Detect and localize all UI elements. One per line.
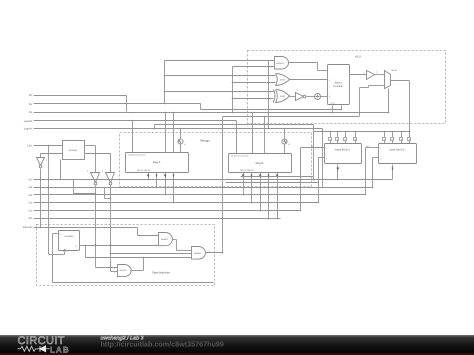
wire RegB Q3 (260, 173, 262, 211)
junction inv1 line1 (73, 179, 75, 181)
wire inv1 tap h (74, 193, 96, 195)
junction x164 or (164, 75, 166, 77)
wire S0 drop (126, 96, 128, 112)
wire FF clock stub (64, 252, 66, 255)
svg-text:1: 1 (363, 72, 364, 75)
wire inv2 tap v (104, 188, 106, 199)
wire FF Q output (80, 245, 159, 247)
svg-text:Counter: Counter (69, 149, 78, 152)
svg-text:Decode: Decode (23, 226, 32, 229)
wire Load A drop right (322, 129, 324, 188)
svg-text:1: 1 (273, 75, 274, 78)
wire S0 (34, 95, 127, 97)
junction bank mux B pin2 (392, 131, 394, 133)
junction x268 b (268, 82, 270, 84)
wire Decode drop (137, 228, 139, 236)
wire SF select stub2 (341, 106, 343, 110)
junction SF stub s0 (332, 112, 334, 114)
bank mux A pin box 2 (336, 138, 339, 142)
arrow RegA Q2 (156, 175, 158, 178)
svg-text:S1: S1 (29, 103, 33, 106)
junction regA d2 (173, 112, 175, 114)
clock source V1 (Reg A) (178, 139, 186, 146)
junction x164 xor (164, 91, 166, 93)
junction regB d2 (264, 116, 266, 118)
wire mux select down (388, 89, 390, 113)
wire bank feed step up (154, 125, 156, 129)
wire RegB top pin d1 (252, 113, 254, 154)
logo wire mid (36, 348, 41, 350)
wire adder to SF pin3 (321, 96, 328, 98)
wire Load B to Reg A pin (132, 121, 134, 153)
bank mux B pin box 2 (391, 138, 394, 142)
wire muxA Id in (301, 147, 325, 149)
svg-text:D0: D0 (29, 217, 33, 220)
wire SF output (350, 74, 367, 76)
wire clockA to RegA (180, 145, 182, 153)
arrow muxB output (392, 168, 394, 171)
svg-text:1: 1 (297, 89, 298, 92)
junction invclk line1 (40, 179, 42, 181)
junction x268 c (268, 98, 270, 100)
arrow muxA output (337, 168, 340, 171)
wire RegB Q5 (277, 173, 279, 219)
mux U11 Bank MUX B (379, 144, 417, 164)
bank mux A pin box 1 (329, 138, 332, 142)
wire rail v x164 (164, 61, 166, 104)
junction S2 at x232 (232, 112, 234, 114)
OR gate U6 (273, 74, 290, 86)
wire feedback step a (360, 87, 369, 89)
wire inverter X2 output down (95, 186, 97, 268)
bank mux B pin box 1 (383, 138, 386, 142)
wire bank mux A pin3 stub (345, 141, 347, 144)
svg-text:S0: S0 (29, 94, 33, 97)
junction regB d1 (252, 112, 254, 114)
counter U2 (63, 141, 85, 160)
wire muxB in2 v (372, 158, 374, 188)
junction decode invclk (40, 227, 42, 229)
svg-text:3: 3 (329, 95, 330, 98)
junction D1 regB3 (260, 210, 262, 212)
junction D5 regA1 (148, 179, 150, 181)
bank mux B pin box 3 (400, 138, 403, 142)
wire inv1 tap v (73, 180, 75, 194)
svg-text:1: 1 (326, 147, 327, 150)
wire bank mux B pin2 stub (392, 141, 394, 144)
wire bank mux A pin1 stub (330, 141, 332, 144)
junction inv2 tap (110, 198, 112, 200)
junction counter bottom (60, 179, 62, 181)
wire XOR in1 rail (165, 91, 274, 93)
svg-text:QD QC QB QA: QD QC QB QA (240, 169, 254, 172)
wire S1 rail (201, 109, 342, 111)
wire bank mux B pin3 feed (401, 132, 403, 138)
wire mux output (391, 80, 410, 82)
wire RegB Q2 (251, 173, 253, 203)
svg-text:CLK: CLK (27, 144, 32, 147)
wire bus D1 (34, 210, 301, 212)
junction D0 regB5 (277, 218, 279, 220)
junction Q x95 (95, 245, 97, 247)
wire NAND1 output (173, 239, 177, 241)
junction D3 muxBid (365, 194, 367, 196)
junction D3 regB1 (243, 194, 245, 196)
svg-text:2: 2 (134, 267, 135, 270)
wire bank feed rail (314, 131, 410, 133)
wire select feedback rail (223, 116, 360, 118)
wire FF feedback v (52, 234, 54, 283)
junction LoadA clkA (180, 128, 182, 130)
wire muxA aux v (322, 129, 324, 132)
wire bank mux A pin4 feed (355, 132, 357, 138)
svg-text:Bank MUX A: Bank MUX A (335, 149, 350, 152)
wire bank mux B pin2 feed (392, 132, 394, 138)
wire AND to SF pin1 (318, 70, 328, 72)
junction D3 regA3 (165, 194, 167, 196)
wire RegA Q2 (156, 173, 158, 188)
wire RegA Q1 (148, 173, 150, 180)
junction Q x85 (85, 245, 87, 247)
arrow RegA Q4 (173, 175, 175, 178)
junction CLK (48, 145, 50, 147)
wire bus D3 (34, 194, 366, 196)
svg-text:2: 2 (329, 79, 330, 82)
wire RegA Q4 (173, 173, 175, 203)
wire counter out1 down (95, 146, 97, 173)
wire S2 (34, 112, 389, 114)
svg-text:ALU: ALU (355, 55, 361, 59)
XOR gate U7 (270, 90, 290, 103)
junction x232 or (232, 82, 234, 84)
svg-text:Bank MUX B: Bank MUX B (390, 149, 405, 152)
bank mux B pin box 4 (408, 138, 411, 142)
junction D5 x40 (40, 179, 42, 181)
wire X3 branch to gate2 (111, 253, 192, 255)
logo diode (40, 346, 46, 352)
wire bus Decode (34, 227, 138, 229)
arrow RegB Q5 (276, 175, 279, 178)
svg-text:1: 1 (156, 234, 157, 237)
Storage module dashed box (120, 133, 312, 187)
wire RegB Q1 (243, 173, 245, 195)
wire bank mux B pin3 stub (401, 141, 403, 144)
wire muxA in2 (319, 157, 325, 159)
wire FF feedback bottom (53, 282, 214, 284)
svg-text:0: 0 (326, 157, 327, 160)
wire bank feed step (155, 124, 314, 126)
wire counter bottom pin (60, 160, 62, 180)
wire AND in1 rail (165, 60, 275, 62)
wire inverter X4 output (307, 96, 315, 98)
svg-text:Storage: Storage (200, 139, 210, 143)
wire FF D input (53, 233, 59, 235)
junction S0-S1 (126, 103, 128, 105)
junction bank mux A pin3 (345, 131, 347, 133)
junction X3 gate2 branch (110, 253, 112, 255)
svg-text:Load B: Load B (24, 120, 32, 123)
svg-text:Reg B: Reg B (256, 161, 264, 165)
wire inverter X3 output down (110, 186, 112, 272)
wire Load A (34, 128, 323, 130)
wire muxB output (392, 165, 394, 180)
wire counter out2 down (110, 154, 112, 173)
svg-text:NAND3: NAND3 (194, 252, 202, 255)
wire bank mux A pin1 feed (330, 132, 332, 138)
svg-text:XOR2: XOR2 (280, 95, 286, 98)
svg-text:1: 1 (380, 147, 381, 150)
junction inv1 tap (95, 193, 97, 195)
wire S1 jog (200, 104, 202, 110)
svg-text:http://circuitlab.com/c8wt3576: http://circuitlab.com/c8wt35767hu99 (101, 340, 224, 349)
junction x268 a (268, 66, 270, 68)
svg-text:D1: D1 (29, 209, 33, 212)
svg-text:Load A: Load A (24, 127, 32, 130)
wire NAND1 to gate2 (177, 250, 192, 252)
register U3 Reg A (126, 153, 189, 173)
svg-text:MUX1: MUX1 (392, 69, 398, 72)
wire XOR output (290, 96, 296, 98)
junction inv2 line2 (104, 187, 106, 189)
wire rail v x268 (268, 61, 270, 129)
wire mux output down (409, 81, 411, 138)
svg-text:1: 1 (114, 267, 115, 270)
svg-text:NAND1: NAND1 (161, 238, 169, 241)
wire RegA top pin d2 (173, 113, 175, 153)
AND gate U13 NAND1 (156, 233, 173, 247)
wire bank mux B pin1 stub (384, 141, 386, 144)
svg-text:State Machine: State Machine (152, 271, 170, 275)
svg-text:Function: Function (333, 85, 344, 88)
wire bank mux B pin4 stub (409, 141, 411, 144)
junction mux out feed (409, 131, 411, 133)
wire X3 to NAND2 in2 (111, 271, 118, 273)
wire S1 (34, 103, 201, 105)
logo wire left (18, 348, 21, 350)
svg-text:s0 s1: s0 s1 (331, 102, 335, 105)
svg-text:3: 3 (376, 71, 377, 74)
junction NAND3 out (222, 252, 224, 254)
wire Load B to Reg B pin (236, 121, 238, 154)
svg-text:2: 2 (156, 243, 157, 246)
bank mux A pin box 4 (354, 138, 357, 142)
wire bus D0 (34, 218, 281, 220)
wire muxA output (337, 165, 339, 180)
svg-text:LD D3 D2 D1 D0 CLK: LD D3 D2 D1 D0 CLK (128, 154, 146, 157)
clock source V2 (Reg B) (282, 139, 291, 146)
wire buffer to mux (375, 74, 385, 76)
junction counter out cross (95, 153, 97, 155)
wire bank mux B pin4 feed (409, 132, 411, 138)
wire clockB feed (284, 129, 286, 139)
svg-text:D5: D5 (29, 179, 33, 182)
wire clockA feed (180, 129, 182, 139)
svg-text:1: 1 (270, 91, 271, 94)
footer maroon strip (0, 353, 474, 355)
wire OR output to SF (290, 79, 328, 81)
arrow RegA Q3 (164, 175, 167, 178)
junction bank mux A pin1 (330, 131, 332, 133)
junction D4 regA2 (156, 187, 158, 189)
svg-text:2: 2 (209, 250, 210, 253)
wire bank mux A pin3 feed (345, 132, 347, 138)
wire rail v x232 (232, 67, 234, 113)
wire counter left output (41, 153, 63, 155)
junction bank rail a (322, 131, 324, 133)
bank mux A pin box 3 (344, 138, 347, 142)
wire into clock inverter (40, 154, 42, 158)
junction S1 at x164 (164, 103, 166, 105)
wire RegA top pin d1 (165, 113, 167, 153)
svg-text:2: 2 (114, 272, 115, 275)
wire muxA in2 v (318, 158, 320, 203)
junction LoadA clkB (284, 128, 286, 130)
wire bank mux A pin2 feed (337, 132, 339, 138)
wire clockB to RegB (284, 145, 286, 154)
wire feedback to mux in2 (369, 85, 385, 87)
junction D1 muxAid (300, 210, 302, 212)
junction bank mux B pin4 (409, 131, 411, 133)
junction LoadA x268 (268, 128, 270, 130)
junction D0 regB4 (268, 218, 270, 220)
wire OR in2 rail (233, 82, 276, 84)
svg-text:XOR2: XOR2 (280, 78, 286, 81)
logo resistor (21, 346, 36, 351)
junction S1rail 341 (341, 109, 343, 111)
AND gate U5 (272, 57, 289, 70)
wire Decode to NAND1 in1 (138, 235, 159, 237)
wire bus D4 (34, 187, 373, 189)
wire RegB Q4 (268, 173, 270, 219)
wire state vertical x222 (222, 117, 224, 254)
wire X2 to NAND2 in1 (96, 267, 118, 269)
wire feedback up x359 (359, 88, 361, 117)
wire muxB Id v (365, 148, 367, 195)
mux U9 MUX1 (385, 69, 398, 94)
inverter X3 (102, 170, 115, 185)
select function block U8 (328, 65, 350, 105)
junction bank mux A pin2 (337, 131, 339, 133)
flip-flop U12 TransMB1 (59, 231, 80, 252)
wire CLK down to state machine (48, 146, 50, 255)
arrow RegB Q1 (242, 175, 245, 178)
junction gate3 out join (143, 257, 145, 259)
junction D2 regB2 (251, 202, 253, 204)
wire Load B (34, 120, 237, 122)
wire bank mux B pin1 feed (384, 132, 386, 138)
wire CLK to FF clock (49, 254, 65, 256)
wire RegA Q3 (165, 173, 167, 195)
logo wire right (46, 348, 50, 350)
wire counter out1 (85, 145, 96, 147)
wire inv2 tap h (105, 198, 111, 200)
wire clock inverter output down (40, 169, 42, 228)
wire bus D2 (34, 202, 319, 204)
svg-text:2: 2 (273, 82, 274, 85)
svg-text:TransMB1: TransMB1 (64, 235, 75, 238)
junction X3 ff line (110, 244, 112, 246)
junction LoadA bus (322, 187, 324, 189)
mux U10 Bank MUX A (325, 144, 362, 164)
inverter X4 (ALU) (296, 89, 306, 101)
svg-text:2: 2 (272, 66, 273, 69)
wire counter out2 (85, 153, 111, 155)
svg-text:S2: S2 (29, 111, 33, 114)
inverter X1 (clock) (37, 158, 48, 168)
arrow RegA Q1 (147, 175, 150, 178)
inverter X2 (87, 170, 100, 185)
wire AND output drop (317, 63, 319, 71)
wire muxA feed v (313, 125, 315, 180)
junction D0 SM (222, 218, 224, 220)
svg-text:1: 1 (272, 59, 273, 62)
wire NAND3 output (206, 252, 223, 254)
wire bus D5 (34, 179, 393, 181)
wire XOR in2 rail (233, 98, 274, 100)
AND gate U15 NAND2 (114, 265, 131, 277)
svg-text:D2: D2 (29, 202, 33, 205)
arrow RegB Q4 (268, 175, 270, 178)
wire aux segment b (226, 182, 319, 184)
AND gate U14 NAND3 (192, 247, 206, 260)
junction D2 regA4 (173, 202, 175, 204)
wire NAND2 out up (143, 258, 145, 271)
arrow RegB Q3 (259, 175, 262, 178)
wire muxB in2 (373, 157, 379, 159)
junction D2 muxAin2 (318, 202, 320, 204)
wire SF select stub1 (332, 106, 334, 113)
wire AND output (289, 62, 318, 64)
wire AND in2 rail (233, 66, 275, 68)
wire muxA Id v (300, 148, 302, 211)
junction bank mux B pin1 (384, 131, 386, 133)
svg-text:LD D3 D2 D1 D0 CLK: LD D3 D2 D1 D0 CLK (231, 155, 249, 158)
footer bar (0, 335, 474, 355)
buffer X5 (363, 71, 377, 80)
junction bank mux A pin4 (355, 131, 357, 133)
wire NAND1 out drop (176, 240, 178, 251)
svg-text:Reg A: Reg A (153, 160, 161, 164)
register U4 Reg B (229, 154, 292, 173)
wire CLK (34, 145, 63, 147)
wire muxB Id in (366, 147, 379, 149)
wire aux segment a (241, 176, 314, 178)
junction LoadB regA (132, 120, 134, 122)
svg-text:AND2U1: AND2U1 (276, 62, 285, 65)
junction S2 at x388 (388, 112, 390, 114)
svg-text:D4: D4 (29, 186, 33, 189)
junction D5 muxA bottom (337, 179, 339, 181)
junction D5 muxA v (313, 179, 315, 181)
wire Q branch v x85 (85, 246, 87, 258)
svg-text:NAND2: NAND2 (120, 269, 128, 272)
svg-text:0: 0 (380, 157, 381, 160)
State Machine module dashed box (37, 225, 215, 286)
wire RegB top pin d2 (264, 117, 266, 154)
ALU module dashed box (248, 51, 446, 124)
wire bank mux A pin2 stub (337, 141, 339, 144)
wire OR in1 rail (165, 75, 276, 77)
junction x232 xor (232, 98, 234, 100)
junction D4 muxBin2 (372, 187, 374, 189)
svg-text:D3: D3 (29, 194, 33, 197)
wire feedback step b (368, 86, 370, 88)
wire bank mux A pin4 stub (355, 141, 357, 144)
junction Q x110 (110, 245, 112, 247)
svg-text:2: 2 (270, 98, 271, 101)
junction bank mux B pin3 (401, 131, 403, 133)
svg-text:1: 1 (329, 67, 330, 70)
